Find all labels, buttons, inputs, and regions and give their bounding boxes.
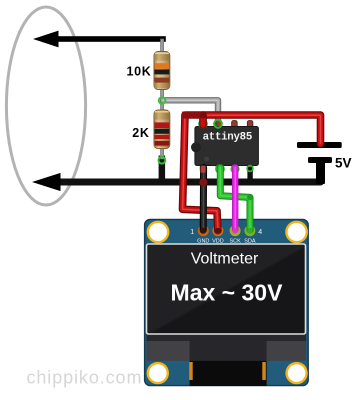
wire top arrow line: [33, 31, 166, 48]
svg-text:10K: 10K: [126, 65, 151, 79]
bottom pin legs: [200, 165, 206, 172]
mounting hole bottom-right: [285, 362, 307, 384]
wire black attiny pin4 stub to ground rail: [247, 167, 252, 182]
mounting hole bottom-left: [147, 362, 169, 384]
pad numbers: [190, 229, 262, 236]
connector clip right: [262, 362, 266, 380]
OLED board: [145, 219, 309, 385]
battery bottom plate (-): [308, 157, 332, 163]
pin pad SCK ring: [230, 225, 241, 236]
svg-text:1: 1: [190, 229, 194, 236]
svg-text:2K: 2K: [132, 126, 149, 140]
mounting hole top-right: [285, 221, 308, 244]
svg-text:SCK: SCK: [229, 238, 241, 244]
bottom arrowhead: [32, 173, 61, 191]
svg-text:chippiko.com: chippiko.com: [27, 368, 143, 388]
wire darker red segment: [182, 112, 204, 119]
pin rings bottom (under wires): [216, 165, 224, 173]
probe loop ellipse: [6, 7, 85, 205]
svg-text:5V: 5V: [335, 156, 352, 171]
pad centers: [200, 228, 206, 234]
svg-text:GND: GND: [197, 238, 209, 244]
pin pad VDD ring: [212, 225, 223, 236]
battery stem to ground: [316, 160, 325, 184]
resistor lead 2K: [161, 101, 164, 159]
svg-text:Max ~ 30V: Max ~ 30V: [171, 280, 284, 306]
svg-text:4: 4: [258, 229, 262, 236]
chip body: [195, 127, 259, 166]
svg-text:VDD: VDD: [212, 238, 224, 244]
svg-text:Voltmeter: Voltmeter: [191, 251, 259, 268]
pin pad GND ring: [198, 225, 209, 236]
resistor lead 10K: [161, 39, 164, 101]
node red bendpoint: [200, 112, 207, 119]
OLED flex connector tab: [190, 337, 267, 361]
magenta wire attiny pin to OLED SCK: [232, 168, 238, 231]
red branch wire to attiny VCC pin: [199, 115, 207, 125]
green wire attiny pin to OLED SDA: [220, 168, 250, 231]
connector clip left: [189, 362, 193, 380]
black wire attiny GND pin to OLED GND: [200, 168, 207, 231]
resistor R2 2K body: [154, 110, 170, 149]
svg-text:attiny85: attiny85: [203, 131, 252, 143]
node green bendpoint: [247, 194, 253, 200]
pin pad SDA ring: [244, 225, 255, 236]
junction dot on ground rail: [199, 178, 207, 186]
attiny85 chip: [191, 121, 258, 173]
pin connection rings on attiny: [247, 166, 253, 172]
battery top plate (+): [297, 142, 342, 148]
red V+ wire battery to divider top and OLED VDD: [183, 115, 321, 230]
resistor R1 10K body: [154, 52, 170, 90]
OLED display glass: [147, 244, 306, 334]
svg-text:SDA: SDA: [244, 238, 256, 244]
attiny pin 1 leg over wire: [201, 166, 206, 174]
top pin legs: [200, 121, 206, 128]
OLED bottom bezel band: [147, 334, 307, 361]
node 2K bottom junction dot: [159, 157, 166, 164]
mounting hole top-left: [147, 221, 170, 244]
node divider tap junction dot: [159, 97, 166, 104]
wire 2K resistor to ground rail: [159, 156, 166, 185]
pin rings top (under wires): [199, 120, 207, 128]
pad labels: [197, 238, 256, 244]
ground rail wire with bottom arrow: [58, 166, 321, 182]
gray wire divider tap to attiny pin: [163, 100, 218, 126]
